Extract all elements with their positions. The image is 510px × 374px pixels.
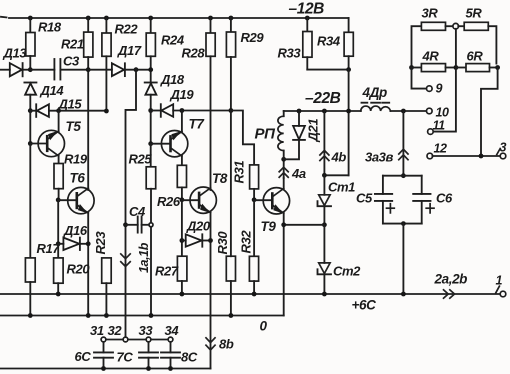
transistor T9: [254, 178, 289, 316]
connector arrow 4a pointing up: [279, 159, 289, 178]
wire -22V feed vertical: [348, 70, 350, 176]
resistor R23: [102, 258, 112, 316]
terminal 1: [500, 291, 506, 297]
wire R24 column down to T7 base: [150, 111, 152, 144]
wire R18 column down to T5 base: [29, 111, 31, 144]
diode D15: [30, 104, 106, 117]
junction D18 / D19 node: [148, 108, 153, 113]
junction top rail at R18: [28, 16, 33, 21]
wire dogleg to R31: [231, 111, 254, 165]
svg-text:–22В: –22В: [305, 90, 341, 107]
svg-text:Д20: Д20: [186, 219, 211, 234]
junction zero rail T6 emitter: [86, 313, 91, 318]
svg-text:1: 1: [496, 274, 503, 288]
junction D19 row / R29-R30 column: [229, 108, 234, 113]
svg-text:Д16: Д16: [63, 223, 88, 238]
junction T7 base node: [148, 141, 153, 146]
connector arrow 3a3b pointing up: [398, 111, 408, 176]
wire filter down to +6 rail: [402, 224, 404, 294]
svg-text:4Др: 4Др: [362, 85, 387, 100]
svg-text:4R: 4R: [422, 49, 440, 64]
resistor R20: [54, 258, 64, 294]
junction top rail at R29: [229, 16, 234, 21]
junction zero rail R23: [104, 313, 109, 318]
junction D20 left: [180, 238, 185, 243]
wire left branch to terminal 9: [412, 68, 427, 89]
terminal 3: [500, 153, 506, 159]
terminal 11: [428, 129, 434, 135]
junction D20 right on T8 emitter: [208, 238, 213, 243]
junction -22V rail / filter branch: [401, 109, 406, 114]
wire terminal strip 31-34: [106, 339, 168, 341]
resistor R30: [226, 256, 235, 315]
svg-text:T7: T7: [189, 117, 206, 132]
capacitor 8C: [161, 342, 180, 369]
junction 4R 6R middle: [454, 65, 459, 70]
resistor R26: [177, 165, 186, 200]
junction +6 rail R20: [56, 292, 61, 297]
svg-text:R19: R19: [64, 152, 88, 167]
svg-text:6R: 6R: [467, 49, 484, 64]
terminal 33: [146, 337, 151, 342]
svg-text:11: 11: [433, 119, 446, 133]
junction D14 / D15 node: [28, 108, 33, 113]
svg-text:R33: R33: [278, 46, 302, 61]
wire R29 to R30 column: [230, 111, 232, 257]
connector arrow 8b pointing down: [205, 337, 215, 350]
resistor R24: [146, 18, 155, 83]
junction T9 emitter row: [281, 222, 286, 227]
svg-text:10: 10: [436, 106, 450, 120]
diode D17: [112, 63, 151, 76]
junction T9 emitter / St chain: [322, 222, 327, 227]
capacitor C3: [30, 59, 88, 80]
wire zero rail: [0, 315, 284, 317]
junction top rail at R22: [104, 16, 109, 21]
wire T9 emitter to St chain: [284, 224, 325, 226]
wire C3 row to D17: [88, 69, 112, 71]
resistor R22: [102, 18, 111, 111]
svg-text:6C: 6C: [75, 349, 92, 364]
svg-text:R17: R17: [37, 241, 61, 256]
svg-text:C4: C4: [129, 204, 146, 219]
wire C5 C6 bottom bus: [383, 223, 422, 225]
junction zero rail R25: [149, 313, 154, 318]
svg-text:4a: 4a: [291, 166, 306, 181]
junction -22V rail at R33R34 feed: [346, 109, 351, 114]
junction C5C6 bottom: [401, 221, 406, 226]
wire C5 C6 top bus: [383, 175, 422, 177]
junction 4b bottom / St1 top: [322, 173, 327, 178]
resistor R31: [250, 165, 259, 200]
wire T7 base column down to R25: [150, 144, 152, 167]
resistor 5R: [458, 22, 496, 63]
inductor 4Dr: [361, 103, 391, 111]
diode D20: [182, 234, 211, 246]
junction T8 base node: [180, 197, 185, 202]
svg-text:9: 9: [436, 82, 443, 96]
wire T5 base column down to R17: [29, 144, 31, 258]
svg-text:8C: 8C: [181, 350, 198, 365]
svg-text:Д17: Д17: [117, 43, 142, 58]
svg-text:R21: R21: [61, 37, 84, 52]
svg-text:34: 34: [165, 323, 180, 338]
junction zero rail R30: [229, 313, 234, 318]
svg-text:0: 0: [260, 319, 268, 334]
svg-text:1a,1b: 1a,1b: [137, 242, 151, 273]
junction relay RP bottom node: [281, 157, 286, 162]
junction 12 row / right branch: [479, 154, 484, 159]
svg-text:R34: R34: [317, 34, 341, 49]
resistor R17: [25, 258, 35, 316]
svg-text:33: 33: [139, 323, 154, 338]
junction 6R right: [495, 65, 500, 70]
resistor R32: [249, 200, 258, 294]
connector arrow 4b pointing up: [319, 111, 329, 175]
diode D14: [24, 83, 36, 111]
resistor R33: [303, 18, 312, 70]
junction D17 row / R24 column: [148, 67, 153, 72]
resistor R19: [54, 164, 63, 200]
svg-text:T9: T9: [261, 219, 277, 234]
terminal 10: [427, 108, 433, 114]
svg-text:12: 12: [434, 142, 448, 156]
junction cap rail 6C: [101, 366, 106, 371]
svg-text:T5: T5: [66, 119, 82, 134]
wire input row from left edge: [0, 69, 10, 71]
svg-text:R30: R30: [215, 231, 230, 255]
wire T6 base column down to D16 and R20: [57, 200, 59, 258]
wire top supply rail: [1, 17, 349, 18]
tick before terminal 1: [496, 286, 500, 293]
svg-text:32: 32: [108, 323, 123, 338]
connector arrow 1a,1b pointing down: [120, 253, 131, 266]
svg-text:Cт1: Cт1: [328, 180, 355, 195]
capacitor 7C: [139, 342, 158, 369]
junction C3 / R21 column: [86, 67, 91, 72]
svg-text:R29: R29: [241, 30, 265, 45]
resistor R29: [226, 18, 235, 111]
terminal 34: [168, 337, 173, 342]
wire capacitor bottom rail: [0, 368, 211, 370]
svg-text:Д13: Д13: [3, 46, 28, 61]
junction T9 base node: [252, 197, 257, 202]
capacitor 6C: [94, 342, 113, 369]
junction 4b top: [322, 109, 327, 114]
junction D17 row / C4 branch: [134, 67, 139, 72]
svg-text:R18: R18: [38, 20, 62, 35]
resistor R18: [26, 18, 35, 70]
capacitor C5: [375, 176, 394, 224]
junction top rail at R24: [148, 16, 153, 21]
junction R34 bottom: [346, 67, 351, 72]
svg-text:C5: C5: [356, 191, 373, 206]
resistor R21: [84, 18, 93, 190]
resistor R28: [206, 18, 215, 190]
svg-text:R32: R32: [239, 230, 254, 254]
junction cap rail 7C: [146, 366, 151, 371]
svg-text:Д15: Д15: [58, 97, 83, 112]
terminal 32: [123, 337, 128, 342]
svg-text:C3: C3: [63, 54, 80, 69]
wire T8 base column down to D20 and R27: [181, 200, 183, 256]
resistor 3R: [412, 22, 454, 67]
svg-text:R23: R23: [93, 231, 108, 255]
junction +6 rail filter: [401, 292, 406, 297]
svg-text:R25: R25: [129, 152, 153, 167]
resistor 6R: [456, 64, 498, 72]
svg-text:C6: C6: [436, 191, 453, 206]
tick before terminal 3: [497, 149, 500, 155]
svg-text:+6С: +6С: [352, 298, 377, 313]
svg-text:T8: T8: [212, 171, 228, 186]
svg-text:2a,2b: 2a,2b: [434, 272, 468, 287]
svg-text:5R: 5R: [466, 6, 483, 21]
resistor 4R: [412, 64, 456, 72]
svg-text:R27: R27: [155, 264, 179, 279]
junction D19 row / T7 collector: [180, 108, 185, 113]
terminal 9: [427, 86, 433, 92]
svg-text:R26: R26: [157, 194, 181, 209]
junction D21 top: [297, 109, 302, 114]
svg-text:8b: 8b: [219, 337, 234, 352]
terminal 31: [101, 337, 106, 342]
junction C5C6 top: [401, 173, 406, 178]
junction +6 rail R27: [180, 292, 185, 297]
svg-text:R20: R20: [67, 262, 91, 277]
svg-text:3R: 3R: [422, 6, 439, 21]
junction T5 base node: [28, 141, 33, 146]
junction D15 row / R22-R23 column: [104, 109, 109, 114]
wire terminal 12 row to terminal 3: [432, 155, 500, 157]
resistor R25: [146, 167, 156, 316]
terminal between 3R and 5R: [453, 23, 459, 29]
svg-text:R28: R28: [182, 46, 206, 61]
svg-text:РП: РП: [255, 126, 277, 143]
wire C4 branch jog from D17 row: [126, 70, 137, 337]
svg-text:Cт2: Cт2: [333, 264, 361, 279]
svg-text:T6: T6: [70, 171, 86, 186]
svg-text:7C: 7C: [117, 350, 134, 365]
junction top rail at R33: [305, 16, 310, 21]
wire R33 to R34 bottom bus: [307, 69, 348, 71]
junction C4 on R25 column (small open circle): [149, 223, 153, 227]
terminal 12: [427, 153, 433, 159]
connector arrow 2a,2b pointing right: [443, 289, 455, 298]
resistor R34: [344, 18, 353, 70]
junction top rail at R28: [208, 16, 213, 21]
relay coil RP: [278, 111, 284, 159]
junction +6 rail St2: [322, 292, 327, 297]
junction C4 on 1a1b line: [123, 222, 128, 227]
transistor T7: [151, 111, 188, 166]
junction +6 rail R32: [252, 292, 257, 297]
junction zero rail R17: [28, 313, 33, 318]
capacitor C4: [126, 217, 152, 233]
diode D13: [10, 63, 31, 76]
transistor T8: [182, 187, 217, 369]
diode D21: [284, 111, 305, 159]
wire -22V rail: [284, 110, 427, 112]
svg-text:R31: R31: [232, 161, 247, 184]
junction top rail at R21: [86, 16, 91, 21]
svg-text:3a3в: 3a3в: [365, 150, 393, 165]
svg-text:R22: R22: [115, 22, 139, 37]
svg-text:Д19: Д19: [170, 87, 195, 102]
resistor R27: [177, 256, 187, 294]
capacitor C6: [413, 176, 434, 224]
svg-text:Д18: Д18: [160, 72, 185, 87]
junction D16 right on T6 emitter: [86, 241, 91, 246]
svg-text:3: 3: [500, 141, 507, 155]
junction D16 left: [56, 241, 61, 246]
diode D19: [151, 104, 231, 117]
junction T6 base node: [56, 198, 61, 203]
diode D18: [145, 83, 157, 111]
zener St2: [318, 225, 332, 294]
svg-text:Д21: Д21: [306, 119, 321, 143]
junction D13 / R18 / C3: [28, 67, 33, 72]
wire 4b bypass branch: [324, 174, 348, 176]
transistor T6: [58, 187, 94, 315]
svg-text:31: 31: [90, 323, 104, 338]
svg-text:–12В: –12В: [289, 1, 325, 18]
zener St1: [318, 175, 332, 225]
wire right branch down: [481, 68, 498, 157]
junction D15 row / T5 collector: [56, 108, 61, 113]
wire middle branch to terminal 11: [433, 29, 456, 132]
svg-text:4b: 4b: [331, 150, 347, 165]
transistor T5: [30, 111, 64, 164]
wire +6 rail: [0, 293, 500, 295]
diode D16: [58, 238, 88, 250]
junction 4R left: [409, 65, 414, 70]
junction cap rail 8C: [168, 366, 173, 371]
